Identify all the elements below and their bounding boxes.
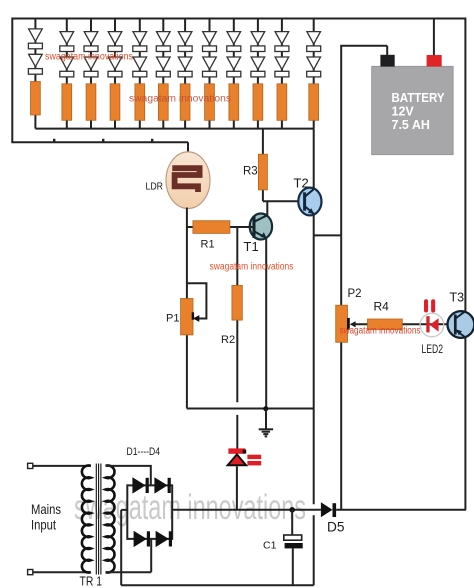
wire LDR supply bus <box>11 142 188 153</box>
LED LED2 <box>420 299 444 356</box>
wire bridge positive output to D5 and charger rail <box>172 509 321 511</box>
svg-text:P2: P2 <box>348 288 362 300</box>
svg-text:D5: D5 <box>327 519 345 535</box>
ground <box>259 409 273 437</box>
resistor R4 <box>368 300 403 330</box>
battery B1 12V 7.5AH <box>372 55 453 155</box>
wire P2 wiper to T3 base <box>352 323 455 325</box>
svg-text:Input: Input <box>31 517 56 533</box>
LED branch 2: wire, two LEDs, series resistor <box>60 19 74 129</box>
wire R3/T1-collector node to T2 base <box>263 200 305 202</box>
svg-text:C1: C1 <box>263 540 277 552</box>
svg-text:LDR: LDR <box>146 181 164 193</box>
svg-text:swagatam innovations: swagatam innovations <box>210 262 294 273</box>
transformer TR1 <box>33 464 115 588</box>
wire T1 collector <box>266 201 268 216</box>
LED branch 10: wire, two LEDs, series resistor <box>251 19 265 129</box>
LED branch 6: wire, two LEDs, series resistor <box>156 19 170 129</box>
LED branch 7: wire, two LEDs, series resistor <box>178 19 192 129</box>
transistor T1 <box>244 214 273 255</box>
svg-text:T3: T3 <box>450 290 465 304</box>
LDR <box>146 152 211 209</box>
wire right border (charger output rail) <box>464 18 466 510</box>
preset P1 with wiper loop <box>166 283 206 335</box>
svg-text:R1: R1 <box>201 238 215 250</box>
svg-text:BATTERY: BATTERY <box>392 91 446 105</box>
LED branch 9: wire, two LEDs, series resistor <box>227 19 241 129</box>
wire LDR to R1/P1 node <box>186 208 188 409</box>
svg-text:swagatam innovations: swagatam innovations <box>129 94 231 105</box>
wire ground rail <box>187 408 314 410</box>
wire battery negative lead <box>340 45 387 236</box>
capacitor C1 <box>263 510 303 585</box>
preset P2 <box>336 235 362 509</box>
svg-text:swagatam innovations: swagatam innovations <box>74 487 306 527</box>
LED branch 5: wire, two LEDs, series resistor <box>133 19 147 129</box>
svg-text:swagatam innovations: swagatam innovations <box>45 52 133 63</box>
LED branch 11: wire, two LEDs, series resistor <box>275 19 289 129</box>
node C1 junction <box>289 507 295 513</box>
node nubs on LDR bus <box>53 139 153 142</box>
resistor R2 (line hops over ground rail, goes to indicator LED) <box>221 227 242 449</box>
svg-text:T1: T1 <box>244 239 259 254</box>
wire LED cathode bus <box>35 128 313 130</box>
wire T1 emitter down to ground rail <box>265 237 267 408</box>
svg-text:7.5 AH: 7.5 AH <box>392 118 430 132</box>
wire T2 collector from LED bus <box>313 129 315 189</box>
wire T2 emitter down, crossing hop at charge wire, to bottom negative rail <box>313 215 315 586</box>
bridge rectifier D1-D4 <box>106 446 173 585</box>
resistor R3 <box>243 129 267 202</box>
svg-text:swagatam innovations: swagatam innovations <box>340 326 421 337</box>
svg-text:LED2: LED2 <box>422 342 444 356</box>
LED branch 1: wire, two LEDs, series resistor <box>28 19 42 129</box>
LED branch 3: wire, two LEDs, series resistor <box>84 19 98 129</box>
transistor T2 <box>294 176 322 216</box>
diode D5 <box>321 502 345 534</box>
svg-text:Mains: Mains <box>31 501 61 517</box>
LED branch 8: wire, two LEDs, series resistor <box>203 19 217 129</box>
transistor T3 <box>448 290 474 338</box>
svg-text:R3: R3 <box>243 165 258 177</box>
wire bottom negative rail <box>121 584 314 586</box>
wire top supply bus <box>12 18 465 20</box>
LED branch 12: wire, two LEDs, series resistor <box>307 19 321 129</box>
svg-text:TR 1: TR 1 <box>80 574 103 588</box>
mains input terminals <box>28 463 61 574</box>
svg-text:T2: T2 <box>294 176 309 191</box>
wire battery positive drop <box>433 18 435 57</box>
svg-text:12V: 12V <box>392 104 415 118</box>
svg-text:D1----D4: D1----D4 <box>127 446 161 458</box>
wire left border (battery positive rail down to LDR bus) <box>11 18 13 143</box>
node T1 emitter / ground junction <box>263 406 268 411</box>
LED branch 4: wire, two LEDs, series resistor <box>108 19 122 129</box>
svg-text:R2: R2 <box>221 334 235 346</box>
resistor R1 <box>187 221 254 251</box>
svg-text:R4: R4 <box>374 300 390 314</box>
svg-text:P1: P1 <box>166 313 179 325</box>
LED indicator (red, on R2 leg) <box>228 448 261 509</box>
wire T2 emitter to battery negative junction <box>314 234 342 236</box>
